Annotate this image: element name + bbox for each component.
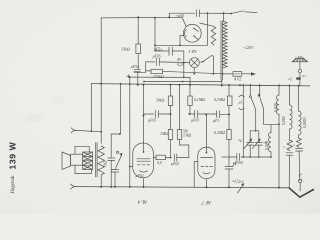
faint smudge marks xyxy=(25,96,65,123)
wire AL4 grid column xyxy=(143,85,145,152)
trimmer cap 2 xyxy=(255,142,262,144)
wire pot cap to bus xyxy=(114,172,116,187)
wire row2b to coupling cap corner xyxy=(180,140,189,158)
capacitor coupling 3 xyxy=(216,111,218,118)
resistor row2 a xyxy=(170,114,172,130)
node rail x138 xyxy=(137,84,139,86)
wire column x129 xyxy=(129,77,131,187)
switch wave band 2 xyxy=(259,84,261,86)
antenna xyxy=(292,58,307,62)
capacitor tone 1 xyxy=(108,157,115,159)
capacitor coupling 2 xyxy=(194,111,196,118)
wire y114 segment 4 xyxy=(198,113,217,115)
label ~220V xyxy=(243,45,254,50)
wire left vertical B+ column xyxy=(100,18,102,144)
capacitor AL4 coupling xyxy=(173,154,175,161)
branch B wire left xyxy=(146,70,151,72)
resistor small zigzag xyxy=(287,140,293,151)
resistor heater dropping xyxy=(233,72,242,77)
wire coupling cap to corner xyxy=(177,157,189,159)
ground symbol xyxy=(289,188,313,197)
switch wave band 1 xyxy=(249,84,251,86)
wire speaker loops xyxy=(75,146,91,173)
capacitor series bus156 xyxy=(236,154,238,161)
wire AF7 cathode left xyxy=(194,162,198,188)
wire winding bottom to bus xyxy=(100,175,102,187)
node AZ1 loop left xyxy=(168,16,170,18)
RF coil A xyxy=(278,85,280,87)
capacitor coupling 1 xyxy=(154,111,156,118)
ground connector xyxy=(299,179,302,182)
wire cap to lamp column xyxy=(155,50,169,52)
wire bus156 xyxy=(241,156,271,158)
capacitor C column xyxy=(296,148,303,150)
wire top rail xyxy=(101,16,182,19)
resistor 13k xyxy=(136,44,141,54)
wire coil A2 bottom xyxy=(270,152,272,157)
wire lamp right to switch xyxy=(199,61,202,63)
output transformer core xyxy=(95,143,97,178)
wire coil C bottom xyxy=(298,135,300,138)
capacitor series lamp feed xyxy=(168,47,170,55)
capacitor marks right of R row1c xyxy=(239,95,244,109)
wire tone cap to bus xyxy=(110,160,112,187)
wire lamp left xyxy=(184,62,190,64)
wire trimmer header xyxy=(250,131,259,142)
resistor row1 a xyxy=(170,85,172,96)
wire bottom bus xyxy=(75,187,289,188)
speaker box xyxy=(71,154,83,165)
resistor zigzag right of AZ1 xyxy=(200,23,214,26)
wire coil B column to bus corner xyxy=(288,155,290,187)
resistor AL4 grid stopper xyxy=(156,155,166,159)
resistor row1 b xyxy=(189,85,191,96)
wire rail corner left xyxy=(90,84,92,132)
wire to AL4 grid xyxy=(153,156,156,158)
wire coupling bus y114 xyxy=(144,113,154,115)
RF coil B xyxy=(289,85,291,87)
wire y114 segment 2 xyxy=(158,113,170,115)
capacitor electrolytic xyxy=(134,69,140,71)
capacitor below pot xyxy=(112,169,119,171)
switch heater xyxy=(202,61,204,63)
capacitor branch A xyxy=(155,58,157,65)
wire row2c down to cap xyxy=(228,140,230,167)
rectifier tube AZ1 xyxy=(183,24,201,42)
antenna plug mark xyxy=(296,77,300,80)
capacitor antenna xyxy=(286,152,293,154)
wire 13k column upper xyxy=(137,17,139,44)
wire AZ1 loop right xyxy=(199,12,230,14)
wire coil B bottom to resistor xyxy=(289,129,291,140)
wire row2a down xyxy=(170,140,172,158)
wire y114 right xyxy=(220,114,229,129)
wire heater resistor xyxy=(223,73,233,75)
speaker terminal lower xyxy=(71,184,76,189)
switch mains top right xyxy=(230,13,232,15)
potentiometer arrow volume xyxy=(117,151,119,153)
wire transformer top to switch xyxy=(223,13,225,21)
resistor row2 b xyxy=(179,85,181,130)
resistor small zigzag C xyxy=(297,138,302,147)
wire heater H2 xyxy=(144,81,222,83)
speaker terminal upper xyxy=(71,128,76,133)
speaker cone xyxy=(62,152,71,170)
polarity mark xyxy=(127,75,130,78)
trimmer cap 1 xyxy=(247,142,254,144)
wire AZ1 bypass loop xyxy=(169,13,195,17)
wire jog to coil A2 xyxy=(264,123,280,125)
speaker transformer crossed winding xyxy=(83,152,93,170)
branch A wire to lamp column xyxy=(138,62,155,72)
wire drop x243 to bus156 xyxy=(242,84,244,86)
RF coil A2 xyxy=(268,133,271,152)
wire lamp bottom xyxy=(193,68,195,74)
wire drop x155 xyxy=(155,18,163,51)
output tube AL4 xyxy=(133,143,154,178)
wire AL4 cathode left xyxy=(130,166,133,168)
wire coil A bottom xyxy=(278,114,280,187)
wire branch B to heater box xyxy=(163,71,223,74)
trimmer on bus xyxy=(232,180,244,185)
wire heater H1 xyxy=(130,77,190,85)
RF coil C xyxy=(298,86,300,111)
wire main rail B+ xyxy=(91,84,310,86)
wire speaker upper xyxy=(76,130,101,131)
wire AZ1 cathode bottom xyxy=(180,36,183,46)
dial lamp xyxy=(190,58,200,68)
wire to ground connector xyxy=(298,151,301,181)
node 13k top xyxy=(137,16,139,18)
resistor row1 c xyxy=(228,85,230,96)
wire 13k to cap xyxy=(137,54,139,70)
detector tube AF7 xyxy=(198,147,215,179)
wire branch A right xyxy=(159,61,184,64)
wire branch x120 xyxy=(111,84,120,134)
wire drop to tone caps xyxy=(110,134,112,158)
power transformer winding xyxy=(220,21,222,80)
resistor branch B xyxy=(151,69,163,73)
brand label Hagenuk 139 W xyxy=(8,141,18,193)
wire cap to bus xyxy=(228,169,230,187)
wire transformer bottom to rail xyxy=(221,80,223,86)
node top rail x155 xyxy=(154,17,156,19)
capacitor AZ1 bypass xyxy=(195,10,197,17)
capacitor AF7 cathode xyxy=(225,166,233,168)
resistor row2 c xyxy=(227,130,231,140)
wire cap to rail xyxy=(137,72,139,85)
output transformer winding primary xyxy=(98,146,104,175)
arrow mains pointer xyxy=(242,73,252,75)
wire y114 segment 3 xyxy=(190,113,195,115)
